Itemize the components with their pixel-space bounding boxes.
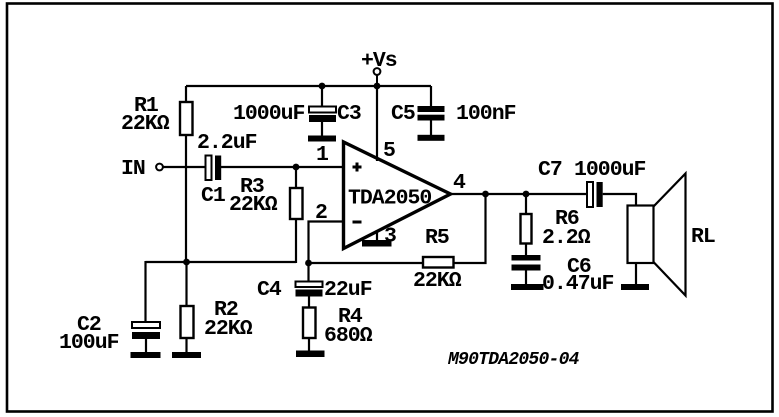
ground R2: [172, 352, 201, 358]
svg-text:C5: C5: [391, 102, 415, 126]
capacitor C1: [206, 156, 222, 181]
svg-text:680Ω: 680Ω: [324, 324, 373, 348]
svg-text:22uF: 22uF: [324, 278, 372, 302]
svg-text:1000uF: 1000uF: [574, 158, 646, 182]
resistor R3: [290, 167, 303, 263]
ground pin 3: [362, 240, 392, 247]
wire supply rail: [186, 85, 431, 87]
resistor R4: [303, 308, 316, 352]
junction output/feedback: [482, 191, 489, 198]
wire C1 to pin 1: [221, 166, 344, 168]
wire bias node: [146, 261, 297, 263]
junction rail/+Vs: [374, 83, 381, 90]
junction rail/C3: [319, 83, 326, 90]
resistor R1: [180, 86, 193, 262]
speaker RL: [628, 174, 686, 296]
svg-text:+Vs: +Vs: [361, 49, 397, 73]
capacitor C6: [512, 255, 541, 284]
svg-text:1: 1: [316, 143, 328, 167]
junction output/R6: [523, 191, 530, 198]
wire C7 to RL: [603, 194, 636, 206]
svg-text:22KΩ: 22KΩ: [204, 317, 253, 341]
svg-text:RL: RL: [691, 225, 715, 249]
wire pin 2: [309, 222, 344, 264]
ground RL: [621, 284, 649, 290]
pin 3 stub: [376, 230, 378, 241]
ground C2: [131, 352, 161, 358]
svg-text:4: 4: [453, 171, 466, 195]
svg-text:2.2uF: 2.2uF: [197, 131, 257, 155]
ground C3: [308, 136, 336, 142]
junction pin2/C4/feedback: [305, 260, 312, 267]
svg-text:0.47uF: 0.47uF: [542, 272, 614, 296]
svg-text:C3: C3: [337, 102, 361, 126]
resistor R2: [181, 262, 194, 352]
capacitor C5: [418, 86, 445, 135]
svg-text:TDA2050: TDA2050: [348, 187, 431, 211]
capacitor C7: [587, 182, 603, 207]
pin 1 plus marker: [353, 163, 362, 172]
ground C5: [418, 135, 445, 141]
wire pin 5: [376, 86, 378, 161]
svg-text:IN: IN: [121, 157, 145, 181]
+Vs terminal: [374, 68, 381, 87]
capacitor C3: [309, 86, 336, 136]
svg-text:C4: C4: [257, 278, 282, 302]
wire output: [450, 193, 587, 195]
svg-text:100nF: 100nF: [456, 102, 516, 126]
capacitor C4: [296, 263, 323, 308]
svg-text:M90TDA2050-04: M90TDA2050-04: [447, 350, 580, 370]
svg-text:2.2Ω: 2.2Ω: [542, 226, 591, 250]
svg-text:22KΩ: 22KΩ: [413, 269, 462, 293]
svg-text:C7: C7: [538, 158, 562, 182]
resistor R6: [521, 194, 532, 255]
svg-text:22KΩ: 22KΩ: [229, 193, 278, 217]
svg-text:C1: C1: [201, 184, 225, 208]
wire input to C1: [163, 166, 206, 168]
svg-text:100uF: 100uF: [59, 331, 119, 355]
resistor R5: [423, 257, 454, 268]
wire feedback right: [454, 194, 486, 263]
ground C6: [511, 284, 544, 290]
wire RL to ground: [635, 263, 637, 284]
ground R4: [296, 351, 325, 358]
junction bias/R2: [183, 259, 190, 266]
junction input/R3: [293, 164, 300, 171]
wire feedback left: [309, 262, 424, 264]
svg-text:22KΩ: 22KΩ: [121, 112, 170, 136]
svg-text:5: 5: [383, 139, 395, 163]
pin 2 minus marker: [353, 221, 362, 224]
capacitor C2: [132, 261, 160, 352]
svg-text:1000uF: 1000uF: [233, 102, 305, 126]
op-amp U1: [344, 142, 451, 249]
terminal IN: [156, 164, 163, 171]
svg-text:R5: R5: [425, 226, 449, 250]
